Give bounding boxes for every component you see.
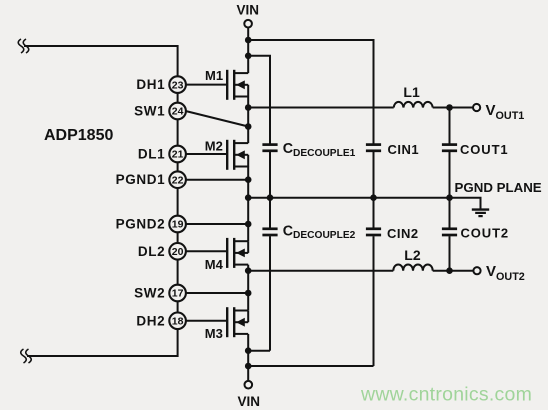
svg-text:L1: L1 — [403, 84, 420, 100]
svg-text:DL2: DL2 — [138, 244, 165, 259]
svg-text:VIN: VIN — [236, 3, 259, 18]
svg-text:DH1: DH1 — [136, 77, 165, 92]
svg-text:VIN: VIN — [237, 394, 260, 409]
svg-text:DL1: DL1 — [138, 147, 165, 162]
svg-text:VOUT2: VOUT2 — [486, 263, 525, 283]
svg-text:M3: M3 — [205, 326, 223, 341]
svg-text:VOUT1: VOUT1 — [486, 102, 525, 122]
svg-text:www.cntronics.com: www.cntronics.com — [360, 384, 532, 406]
svg-text:COUT1: COUT1 — [460, 142, 509, 157]
svg-text:ADP1850: ADP1850 — [44, 127, 113, 144]
svg-text:COUT2: COUT2 — [461, 226, 510, 241]
svg-text:M1: M1 — [205, 68, 223, 83]
svg-text:22: 22 — [172, 174, 184, 186]
svg-text:PGND2: PGND2 — [116, 217, 166, 232]
svg-text:23: 23 — [172, 79, 184, 91]
svg-text:SW1: SW1 — [134, 104, 165, 119]
svg-text:21: 21 — [172, 149, 184, 161]
svg-text:PGND PLANE: PGND PLANE — [455, 180, 542, 195]
svg-text:M2: M2 — [205, 138, 223, 153]
svg-text:CIN2: CIN2 — [387, 226, 419, 241]
svg-text:24: 24 — [172, 106, 184, 118]
svg-text:M4: M4 — [205, 257, 224, 272]
svg-text:19: 19 — [172, 219, 184, 231]
svg-text:PGND1: PGND1 — [116, 172, 166, 187]
svg-text:CDECOUPLE2: CDECOUPLE2 — [283, 224, 356, 242]
svg-text:SW2: SW2 — [134, 286, 165, 301]
svg-text:DH2: DH2 — [136, 313, 165, 328]
svg-text:CDECOUPLE1: CDECOUPLE1 — [283, 141, 356, 159]
svg-text:20: 20 — [172, 246, 184, 258]
svg-text:CIN1: CIN1 — [388, 142, 420, 157]
svg-text:L2: L2 — [404, 247, 421, 263]
svg-text:17: 17 — [172, 288, 184, 300]
svg-text:18: 18 — [172, 316, 184, 328]
